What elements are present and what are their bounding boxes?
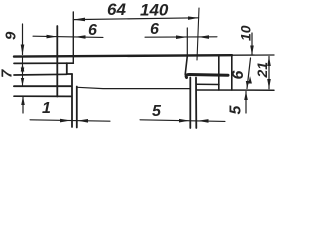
wire dim 21 vertical — [268, 57, 270, 89]
svg-text:5: 5 — [152, 103, 162, 120]
svg-text:21: 21 — [254, 62, 270, 79]
arrowhead 21 up — [267, 56, 271, 66]
wire dim 6 right horizontal — [145, 36, 217, 38]
wire middle underside thin line — [78, 87, 191, 88]
svg-text:6: 6 — [88, 22, 97, 39]
wire right inner wall vertical — [186, 28, 188, 56]
wire left block bottom line y96 — [14, 95, 71, 97]
arrowhead 6 left dim left-pointing — [75, 35, 86, 39]
wire left leg right face — [76, 87, 78, 128]
arrowhead dim7 up — [21, 63, 25, 71]
svg-text:64: 64 — [107, 0, 126, 19]
arrowhead dim10 down — [250, 46, 254, 56]
svg-text:1: 1 — [42, 100, 51, 117]
wire top surface line of part — [14, 55, 232, 56]
arrowhead 6 right dim right-pointing — [176, 35, 187, 39]
arrowhead dim1 left-pointing — [77, 119, 88, 123]
arrowhead 5 right up — [244, 91, 248, 100]
wire dim 7 arrow shaft — [22, 57, 24, 86]
arrowhead right-mid up — [248, 76, 252, 84]
arrowhead right-mid down — [246, 81, 249, 88]
wire spring bar thick — [186, 75, 228, 78]
wire dim 5 bottom horizontal — [140, 120, 225, 122]
arrowhead dim5 right-pointing — [179, 119, 190, 123]
wire dim 6 left horizontal — [33, 36, 103, 37]
svg-text:7: 7 — [0, 69, 16, 78]
wire top surface extension right — [232, 54, 274, 56]
svg-text:6: 6 — [230, 71, 247, 80]
arrowhead 6 left dim right-pointing — [47, 35, 58, 39]
arrowhead 21 down — [267, 79, 271, 89]
wire right lip line y84 — [196, 83, 219, 85]
wire right leg right face — [195, 78, 197, 129]
arrowhead dim5 left-pointing — [198, 119, 209, 123]
wire left outer edge vertical — [56, 26, 58, 97]
arrowhead dim1 right-pointing — [60, 119, 71, 123]
arrowhead dim9 down — [21, 45, 25, 56]
wire top dimension line 64-140 — [73, 18, 198, 20]
svg-text:6: 6 — [150, 21, 159, 38]
wire lower-left arrow shaft — [22, 97, 24, 114]
wire dim 9 vertical line — [22, 24, 24, 55]
svg-text:10: 10 — [238, 25, 254, 41]
wire dim 10 vertical — [251, 33, 253, 55]
wire dim 1 bottom horizontal — [30, 120, 110, 121]
svg-text:5: 5 — [228, 105, 245, 115]
wire left step line y75 — [14, 73, 67, 76]
arrowhead left-block down — [21, 78, 24, 86]
arrowhead left-block up — [21, 96, 25, 105]
wire extension line right of 140 — [197, 8, 199, 60]
wire right block outer edge x232 — [231, 56, 233, 91]
wire right bottom line — [196, 89, 274, 91]
arrowhead 64 left — [74, 18, 86, 22]
wire notch inner vertical x67 — [66, 63, 68, 74]
wire left reference line y63 — [14, 62, 73, 64]
arrowhead dim7 down — [21, 68, 25, 76]
wire right leg left face — [189, 78, 191, 129]
wire notch right vertical x73 — [72, 12, 74, 63]
wire left block lower line y86 — [14, 85, 71, 87]
wire dim 5 right vertical — [245, 92, 247, 114]
wire right block inner vertical x219 — [218, 56, 220, 90]
wire left leg left face — [71, 74, 73, 127]
arrowhead 6 right dim left-pointing — [198, 35, 209, 39]
arrowhead 140 right — [188, 16, 199, 20]
svg-text:9: 9 — [3, 31, 20, 40]
wire notch step horizontal y74 — [67, 73, 72, 75]
wire right mid dim vertical — [247, 58, 251, 89]
svg-text:140: 140 — [140, 1, 169, 20]
